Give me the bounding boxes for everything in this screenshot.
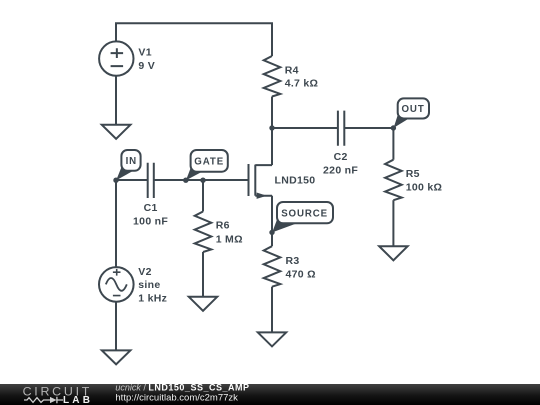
wire C1 to gate	[154, 179, 249, 181]
svg-text:4.7 kΩ: 4.7 kΩ	[285, 77, 319, 89]
logo resistor squiggle	[24, 398, 50, 403]
wire R3 to ground	[271, 287, 273, 333]
wire R6 branch	[202, 180, 204, 212]
wire R5 to ground	[392, 200, 394, 246]
node GATE box	[191, 150, 228, 172]
svg-text:1 kHz: 1 kHz	[138, 292, 167, 304]
svg-text:IN: IN	[126, 156, 138, 167]
svg-text:ucnick / LND150_SS_CS_AMP: ucnick / LND150_SS_CS_AMP	[115, 383, 249, 393]
svg-text:http://circuitlab.com/c2m77zk: http://circuitlab.com/c2m77zk	[115, 393, 238, 404]
wire V1 to ground	[115, 76, 117, 125]
node SOURCE box	[277, 202, 333, 223]
node SOURCE tail	[272, 218, 298, 232]
svg-text:V2: V2	[138, 266, 151, 278]
voltage source V1	[99, 41, 133, 75]
svg-text:R5: R5	[406, 168, 420, 180]
capacitor C1	[148, 163, 154, 198]
voltage source V2	[99, 267, 134, 302]
resistor R6	[195, 212, 212, 253]
wire V2 to ground	[115, 302, 117, 351]
node IN tail	[116, 166, 134, 180]
node OUT tail	[394, 113, 410, 128]
svg-text:R6: R6	[216, 220, 230, 232]
svg-text:9 V: 9 V	[138, 60, 155, 72]
transistor LND150 source lead	[255, 195, 272, 197]
junction dot IN	[113, 178, 118, 183]
junction dot R6 branch	[200, 178, 205, 183]
footer bar	[0, 384, 540, 405]
capacitor C2	[338, 111, 344, 146]
node OUT box	[398, 98, 429, 118]
ground under R5	[379, 246, 407, 260]
junction dot drain	[269, 125, 274, 130]
node GATE tail	[186, 167, 203, 181]
svg-text:SOURCE: SOURCE	[281, 208, 328, 219]
svg-text:100 kΩ: 100 kΩ	[406, 181, 443, 193]
svg-text:100 nF: 100 nF	[133, 216, 168, 228]
ground under V1	[102, 125, 131, 139]
wire SOURCE node to R3	[271, 232, 273, 246]
ground under R6	[189, 297, 217, 311]
ground under V2	[102, 350, 131, 364]
wire R4 bottom to drain	[271, 97, 273, 166]
svg-text:R3: R3	[286, 255, 300, 267]
junction dot SOURCE	[269, 230, 274, 235]
svg-text:220 nF: 220 nF	[323, 165, 358, 177]
wire IN to C1	[116, 179, 148, 181]
wire drain node to C2 left	[272, 127, 338, 129]
wire source to SOURCE node	[271, 196, 273, 233]
logo diode	[50, 397, 57, 403]
svg-text:sine: sine	[138, 279, 160, 291]
wire R6 to ground	[202, 252, 204, 297]
wire IN node to V2	[115, 180, 117, 267]
svg-text:1 MΩ: 1 MΩ	[216, 233, 243, 245]
ground under R3	[258, 332, 286, 346]
transistor LND150 drain lead	[255, 164, 272, 166]
svg-text:LND150: LND150	[275, 175, 316, 187]
wire OUT node to R5	[392, 128, 394, 160]
wire top rail V1 to R4	[116, 23, 272, 56]
svg-text:C2: C2	[334, 151, 348, 163]
resistor R5	[385, 160, 402, 201]
transistor LND150 source arrow	[257, 193, 267, 199]
junction dot GATE	[183, 178, 188, 183]
node IN box	[121, 150, 140, 171]
svg-text:V1: V1	[138, 46, 151, 58]
transistor LND150 channel bar	[254, 165, 256, 196]
resistor R4	[264, 56, 281, 97]
svg-text:OUT: OUT	[402, 104, 425, 115]
svg-text:C1: C1	[144, 202, 158, 214]
junction dot OUT	[391, 125, 396, 130]
svg-text:R4: R4	[285, 65, 299, 77]
svg-text:GATE: GATE	[194, 156, 224, 167]
resistor R3	[264, 246, 281, 287]
svg-text:470 Ω: 470 Ω	[286, 268, 316, 280]
transistor LND150 gate bar	[248, 164, 250, 196]
wire C2 right to OUT node	[344, 127, 393, 129]
svg-text:LAB: LAB	[63, 395, 93, 405]
